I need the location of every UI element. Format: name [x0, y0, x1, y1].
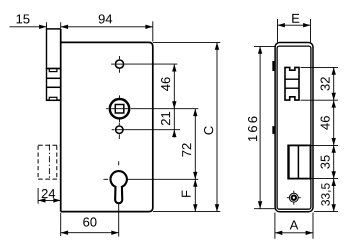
chain ext cylinder bottom	[312, 178, 339, 180]
top hole inner cross h	[116, 63, 123, 65]
lower hole extension line (21 dim)	[123, 129, 180, 131]
hook bolt thrown (dashed) left edge	[37, 146, 39, 179]
screw centerline h	[287, 197, 301, 199]
dim E arrow left	[278, 23, 285, 27]
dim 15/94 shared extension	[60, 22, 62, 28]
top hole centerline tick N	[119, 56, 121, 59]
dim 46r text	[321, 116, 330, 130]
euro profile cylinder hole outline	[111, 171, 127, 203]
follower square spindle hole	[115, 105, 124, 114]
dim E line	[278, 24, 311, 26]
chain ext spool top	[301, 66, 339, 68]
dim C text	[204, 126, 213, 134]
dim A arrow left	[275, 231, 282, 235]
dim 24 extension line	[37, 188, 39, 204]
dim 32 line	[333, 67, 335, 100]
cylinder housing inner line	[297, 145, 299, 178]
dim E text	[292, 14, 299, 23]
spool divider 1	[285, 78, 299, 80]
dim C bottom extension	[153, 211, 220, 213]
dim 60 left extension	[60, 213, 62, 236]
hook slot top line	[46, 68, 62, 70]
faceplate strip left edge	[46, 29, 48, 100]
dim 94 extension line right	[152, 21, 154, 41]
lower hole centerline tick N	[118, 123, 120, 125]
follower centerline tick N	[119, 95, 121, 98]
cylinder housing left edge bold	[287, 145, 289, 180]
dim F arrow bottom	[193, 204, 197, 211]
dim 46 arrow bottom / 21 top	[172, 101, 176, 108]
keyhole horizontal centerline dash left	[104, 178, 109, 180]
lock case body (front view)	[61, 42, 153, 211]
dim 60 line	[61, 232, 119, 234]
side view inner case wall	[277, 46, 311, 209]
keyhole horizontal centerline / F-dim extension	[111, 178, 199, 180]
hook bolt centerline (dash-dot)	[48, 145, 50, 181]
follower hub side view (spool)	[285, 67, 299, 100]
lower hole (fixing hole)	[116, 126, 123, 133]
dim A text	[290, 220, 299, 229]
side wall fixing slot lower (bold mark)	[272, 126, 274, 134]
dim 46r arrow bottom	[332, 138, 336, 145]
dim 24 line	[38, 199, 61, 201]
top hole centerline tick W	[111, 63, 114, 65]
hook slot bottom notch box	[49, 97, 57, 100]
dim A arrow right	[306, 231, 313, 235]
lower hole centerline tick S	[118, 134, 120, 139]
dim 24 arrow left	[38, 198, 45, 202]
follower hub outer circle U1	[110, 99, 129, 118]
dim 35 text	[321, 155, 330, 168]
lower hole inner cross h	[116, 129, 122, 131]
dim 15 leader line	[10, 26, 47, 28]
hook bolt thrown (dashed) bottom edge	[38, 178, 61, 180]
dim 33,5 arrow bottom	[332, 204, 336, 211]
follower extension line (46/21/72 dims)	[131, 108, 199, 110]
dim E extension left	[277, 19, 279, 42]
faceplate strip top edge	[46, 28, 61, 30]
dim E extension right	[310, 19, 312, 42]
dim 166 line	[259, 46, 261, 208]
dim 15 extension line left	[46, 22, 48, 28]
dim C arrow top	[215, 42, 219, 49]
case left edge / faceplate right edge	[60, 29, 62, 212]
dim 94 text	[99, 14, 112, 23]
dim 60 arrow right	[111, 231, 118, 235]
dim A extension left	[274, 213, 276, 239]
chain ext cylinder top	[312, 144, 339, 146]
dim 35 arrow bottom	[332, 171, 336, 178]
dim 46 arrow top	[172, 64, 176, 71]
dim 166 top extension	[254, 45, 275, 47]
dim 15 arrow	[39, 25, 46, 29]
hook bolt thrown (dashed) top edge	[38, 144, 61, 146]
top hole extension line (46 dim)	[124, 63, 177, 65]
dim 46 text	[161, 77, 170, 91]
chain ext spool bottom	[301, 99, 339, 101]
dim 21 text	[161, 112, 170, 125]
follower centerline tick S	[119, 120, 121, 123]
dim 32 arrow bottom	[332, 93, 336, 100]
screw inner ring	[292, 196, 296, 200]
dim 60 text	[83, 217, 96, 226]
dim 94 line	[61, 26, 153, 28]
hook slot divider 2	[47, 86, 61, 88]
dim 33,5 arrow top	[332, 179, 336, 186]
dim 94 arrow left	[61, 25, 68, 29]
follower inner cross h	[111, 108, 128, 110]
dim 46r arrow top	[332, 100, 336, 107]
dim 33,5 text	[321, 183, 331, 205]
dim 72 arrow bottom	[193, 172, 197, 179]
dim F arrow top	[193, 179, 197, 186]
dim 166 arrow top	[258, 46, 262, 53]
dim 72/F line	[194, 109, 196, 212]
dim C arrow bottom	[215, 204, 219, 211]
hook bolt thrown (dashed) right edge	[56, 146, 58, 179]
hook slot top notch box	[49, 69, 57, 72]
dim 46r line	[333, 100, 335, 145]
dim A line	[275, 232, 313, 234]
dim 15 text	[17, 14, 30, 23]
hook slot divider 1	[47, 77, 61, 79]
dim 166 arrow bottom	[258, 201, 262, 208]
dim 72 text	[182, 143, 191, 156]
dim 46/21 line	[173, 64, 175, 137]
cylinder housing side view	[289, 145, 311, 178]
side view outer case outline	[275, 43, 313, 212]
dim 32 text	[321, 77, 330, 90]
side wall fixing slot upper (bold mark)	[272, 61, 274, 71]
dim 24 text	[42, 189, 55, 198]
dim 33,5 line	[333, 179, 335, 212]
dim 72 arrow top	[193, 109, 197, 116]
screw outer circle	[289, 193, 298, 202]
dim E arrow right	[303, 23, 310, 27]
dim 35 line	[333, 145, 335, 178]
spool divider 2	[285, 87, 299, 89]
dim 94 arrow right	[145, 25, 152, 29]
top hole inner cross v2	[119, 60, 121, 68]
dim C line	[216, 42, 218, 211]
dim C top extension	[153, 41, 220, 43]
keyhole vertical centerline tick above	[118, 161, 120, 165]
screw centerline v	[293, 191, 295, 205]
chain ext case bottom	[314, 211, 338, 213]
top hole (fixing hole)	[115, 60, 123, 68]
dim 32 arrow top	[332, 67, 336, 74]
lower hole centerline tick W	[112, 129, 115, 131]
hook slot bottom line	[46, 99, 62, 101]
dim 166 text	[248, 117, 257, 142]
follower centerline tick W	[106, 108, 108, 110]
dim 24 arrow right	[53, 198, 60, 202]
dim 21 arrow bottom (outside)	[172, 130, 176, 137]
dim F text	[182, 191, 191, 197]
keyhole vertical centerline / 60-dim extension	[118, 171, 120, 237]
dim 60 arrow left	[61, 231, 68, 235]
top hole centerline tick S	[119, 69, 121, 72]
dim 166 bottom extension	[254, 208, 275, 210]
dim A extension right	[312, 213, 314, 239]
dim 35 arrow top	[332, 145, 336, 152]
follower inner cross v2	[119, 100, 121, 117]
lower hole inner cross v2	[118, 126, 120, 133]
